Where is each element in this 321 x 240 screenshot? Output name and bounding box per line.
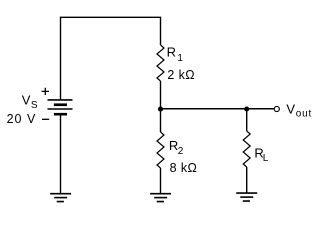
ground symbol (center, R2): [150, 194, 171, 202]
battery VS long plate (+ top): [48, 99, 73, 101]
wire: node B down to RL: [246, 109, 248, 131]
resistor RL (zigzag): [243, 131, 250, 167]
svg-text:out: out: [296, 108, 312, 119]
battery VS short thick plate: [54, 103, 67, 106]
svg-text:8 kΩ: 8 kΩ: [170, 161, 198, 175]
polarity + sign (battery top): [42, 88, 49, 95]
terminal Vout (open circle): [274, 106, 279, 111]
wire: RL bottom to ground: [246, 167, 248, 193]
svg-text:2: 2: [178, 146, 184, 157]
battery VS long plate: [48, 108, 73, 110]
svg-text:1: 1: [177, 53, 183, 64]
wire: node A down to R2: [160, 109, 162, 132]
polarity - sign (battery bottom): [42, 118, 49, 120]
resistor R1 (zigzag): [157, 45, 164, 81]
node A junction dot: [158, 107, 163, 112]
ground symbol (left, battery): [50, 194, 71, 202]
svg-text:L: L: [263, 153, 269, 164]
wire: node A across to Vout terminal: [161, 108, 274, 110]
wire: battery negative down to ground: [60, 115, 62, 193]
svg-text:V: V: [22, 93, 31, 108]
wire: R1 bottom to node A: [160, 81, 162, 109]
svg-text:S: S: [31, 100, 38, 111]
svg-text:20 V: 20 V: [7, 112, 37, 126]
svg-text:2 kΩ: 2 kΩ: [167, 68, 195, 82]
wire: R2 bottom to ground: [160, 168, 162, 193]
battery VS short thick plate (- bottom): [54, 113, 67, 116]
node B junction dot (RL tap): [244, 106, 249, 111]
svg-text:V: V: [286, 102, 295, 117]
ground symbol (right, RL): [236, 193, 257, 201]
svg-text:R: R: [167, 44, 176, 59]
wire: top rail from battery + up and across to R1 branch: [61, 17, 161, 100]
resistor R2 (zigzag): [157, 132, 164, 168]
